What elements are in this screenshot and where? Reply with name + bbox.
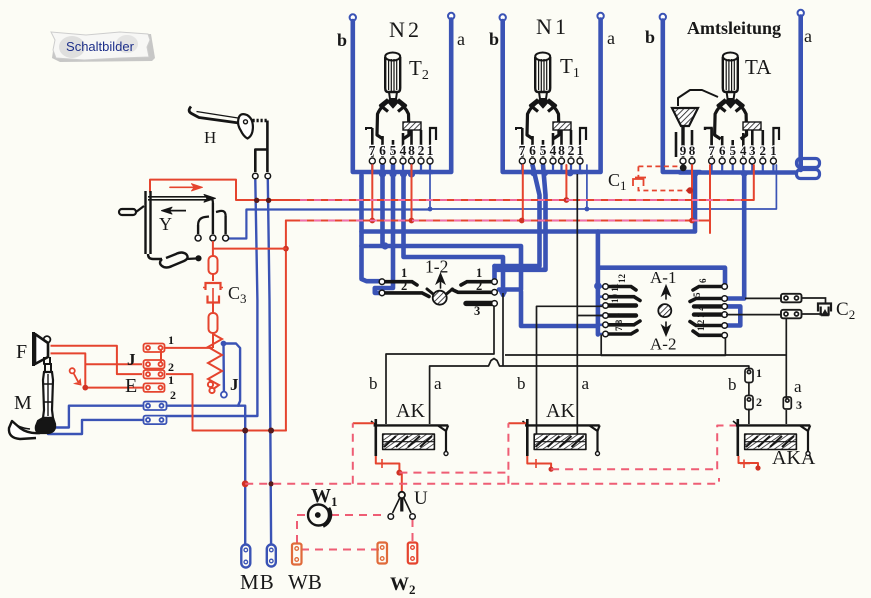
wire T2 contact 7 red drop	[371, 165, 373, 221]
svg-text:a: a	[582, 374, 590, 393]
wire AK1 b to 1-2 bar 3	[386, 307, 494, 425]
wire edge2 left stub	[362, 244, 384, 249]
capacitor C3	[203, 283, 223, 303]
svg-text:7 8 9: 7 8 9	[614, 313, 624, 332]
node joint above J relay	[221, 341, 227, 347]
wire AK2 feed solid	[508, 422, 526, 424]
right bar 1	[461, 282, 492, 285]
hook arm from TA plug to auxiliary jack	[678, 90, 718, 106]
svg-text:6: 6	[698, 278, 708, 283]
wire contact stubs to buses	[372, 164, 773, 173]
wire U switch feed	[401, 473, 403, 492]
svg-text:Amtsleitung: Amtsleitung	[687, 18, 781, 38]
wire a of Amtsleitung	[798, 10, 804, 170]
right bars group	[693, 287, 722, 291]
wire T2 contact 6 down to switch 1-2 rail	[383, 165, 522, 290]
wire A-2 lower frame	[601, 335, 725, 356]
rotor hatched circle	[433, 291, 447, 305]
connector bar lower at line end	[797, 170, 820, 179]
wire T1 contact 5 down to 1-2 right bar 1	[495, 165, 546, 280]
svg-text:Schaltbilder: Schaltbilder	[66, 39, 135, 54]
contact numbers of T2	[369, 143, 434, 158]
contact bar E1	[144, 370, 165, 379]
wire jumper on A right contacts 4 to 2	[726, 306, 740, 325]
contact bar E2	[144, 383, 165, 392]
relay AKA	[733, 419, 810, 456]
wire H-switch right blade down to MB battery right	[268, 180, 271, 544]
svg-text:H: H	[204, 128, 216, 147]
wire F top to contact row 3	[51, 346, 143, 374]
svg-text:F: F	[16, 341, 27, 363]
contact bar blue row6	[144, 416, 167, 425]
svg-text:6: 6	[379, 143, 386, 158]
svg-text:1: 1	[577, 143, 584, 158]
wire a of N1 cord	[570, 13, 604, 172]
tiny rotated numbers right bank	[692, 278, 708, 331]
wire T2 contact 8 red drop	[411, 165, 413, 221]
switch U	[388, 492, 415, 520]
labels b a at AK relays	[369, 374, 802, 396]
svg-text:5: 5	[692, 292, 702, 297]
wire row1-row2 link	[160, 350, 162, 362]
dash WB to W1	[297, 515, 306, 543]
wire handset bottom red return	[193, 374, 286, 430]
relay coil J zigzag	[208, 334, 222, 393]
dash W1 to U	[331, 514, 386, 516]
red wires of handset	[51, 346, 214, 391]
svg-text:7: 7	[708, 143, 715, 158]
wire from A contacts to upper bar	[745, 297, 781, 299]
wire AK2 a drop	[576, 174, 578, 434]
battery W2 cell right	[408, 543, 418, 564]
wire bus under T2 jack	[372, 170, 432, 175]
wire TA contact 4 drop to A-1 right contacts	[727, 174, 744, 299]
node bus joints TA	[692, 170, 748, 177]
wire T1 c2 branch to A bank left row4	[577, 315, 602, 317]
svg-text:2: 2	[476, 279, 482, 293]
svg-text:10 11: 10 11	[610, 283, 620, 303]
svg-text:5: 5	[540, 143, 547, 158]
svg-text:1-2: 1-2	[425, 257, 448, 277]
dash AK2 riser	[507, 423, 509, 484]
svg-text:1: 1	[770, 143, 777, 158]
svg-text:2: 2	[401, 279, 407, 293]
svg-text:b: b	[645, 27, 655, 47]
svg-text:a: a	[794, 377, 802, 396]
wire AK1 a along to AKA b	[430, 359, 749, 425]
contact circle of J relay	[221, 392, 227, 398]
wire branch to row 2	[85, 363, 142, 365]
wire feeder from 1-2 area down	[502, 293, 504, 366]
generator crank Y	[119, 191, 229, 268]
svg-text:b: b	[369, 374, 378, 393]
svg-text:3: 3	[796, 398, 802, 412]
wire stubs frame to contacts	[598, 287, 603, 335]
svg-text:1: 1	[476, 266, 482, 280]
plug TA body	[715, 53, 747, 140]
svg-text:M: M	[14, 392, 32, 414]
wire from A contacts to lower bar	[726, 314, 781, 316]
right bar 3 double	[466, 301, 492, 306]
wire AKA b bars to coil	[748, 383, 750, 424]
wire red loop over Y inductor	[150, 180, 750, 200]
wire bar 5 branch up to J relay contact	[225, 344, 240, 406]
rotor hatched circle	[658, 304, 671, 317]
svg-text:WB: WB	[288, 570, 322, 594]
dash upper right segment	[551, 468, 717, 470]
contact bank of TA jack	[680, 122, 779, 164]
left bars group	[608, 287, 636, 291]
wire AKA a bar3 to coil	[785, 410, 787, 424]
svg-text:a: a	[434, 374, 442, 393]
svg-text:2: 2	[568, 143, 575, 158]
svg-text:3: 3	[749, 143, 756, 158]
wire a of N2 cord	[420, 13, 454, 172]
left bar 1	[385, 282, 417, 285]
wire AK1 feed solid	[353, 422, 374, 424]
wire C2 down to AKA a	[785, 318, 787, 399]
contact bar 3 of AKA	[783, 397, 791, 409]
dash WB to W2 left cell	[301, 549, 380, 551]
dash D1 horizontal	[399, 472, 508, 474]
wire upper bar to C2	[802, 298, 826, 304]
svg-text:1: 1	[756, 366, 762, 380]
handset receiver F	[34, 332, 51, 366]
handset microphone M	[9, 418, 55, 439]
node at switch	[82, 385, 88, 391]
capacitor C2 plates	[818, 304, 831, 312]
wire M microphone to contact bar row 5	[52, 406, 142, 428]
battery MB cell 1	[241, 545, 250, 568]
svg-text:2: 2	[170, 388, 176, 402]
wire T1 contact 6 drop	[495, 165, 540, 266]
svg-text:b: b	[517, 374, 526, 393]
wire TA contact 8 red drop with C1 tap	[691, 165, 693, 221]
contact bar 1 of AKA	[745, 369, 753, 383]
svg-text:A-2: A-2	[650, 335, 676, 354]
wire T2 contact 1 to TA contact 1 thin line	[430, 165, 776, 209]
svg-text:7: 7	[519, 143, 526, 158]
wire b of N2 cord	[350, 14, 383, 172]
svg-text:5: 5	[729, 143, 736, 158]
battery MB cell 2	[267, 545, 276, 567]
auxiliary jack cup of TA	[672, 108, 698, 157]
node red junctions on L1 and L3	[369, 197, 694, 223]
capacitor C1 dashed connection	[638, 166, 687, 190]
black wiring to relays	[386, 174, 786, 434]
tiny rotated numbers left bank	[610, 274, 627, 332]
wire M microphone lower to contact bar row 6	[48, 420, 143, 434]
hook switch lever H	[189, 107, 270, 179]
svg-text:1 2 3 4: 1 2 3 4	[696, 306, 706, 331]
svg-text:AK: AK	[546, 400, 575, 422]
svg-text:b: b	[489, 29, 499, 49]
svg-text:a: a	[607, 28, 615, 48]
arrow down A-2	[662, 322, 669, 335]
wire AK2 b drop	[537, 306, 603, 434]
resistor above C3	[209, 241, 218, 281]
arrow of 1-2	[437, 274, 444, 288]
wire through J relay to its contact	[222, 344, 225, 392]
battery WB cell	[292, 544, 302, 565]
arrow red of Y	[170, 186, 194, 188]
svg-text:3: 3	[474, 304, 480, 318]
contact bar J1	[144, 344, 165, 353]
connector bar upper at line end	[797, 159, 820, 168]
wire b of N1 cord	[500, 14, 534, 172]
svg-text:TA: TA	[745, 55, 772, 79]
svg-text:U: U	[414, 488, 428, 509]
svg-text:2: 2	[168, 360, 174, 374]
wire AK2 return	[527, 456, 551, 467]
SECTION: rednet	[150, 165, 754, 434]
svg-text:5: 5	[390, 143, 397, 158]
node bus joints T2	[379, 170, 602, 295]
svg-text:2: 2	[418, 143, 425, 158]
svg-text:a: a	[804, 26, 812, 46]
wire drop from bus to 1-2 left bar 1	[362, 175, 381, 281]
node bus joints T1	[530, 170, 573, 177]
wire bus under T1 jack	[522, 170, 582, 175]
svg-text:J: J	[230, 375, 239, 394]
dash AKA feed riser	[717, 426, 736, 470]
contact bar lower of C2	[781, 310, 802, 319]
wire b-rail from T2 bus to A-1 frame	[362, 174, 696, 232]
handset handle	[43, 364, 53, 418]
node red junction at C3 branch	[283, 246, 289, 252]
alarm bell W1	[308, 505, 330, 527]
svg-text:1: 1	[427, 143, 434, 158]
dash AK1 riser	[352, 423, 354, 484]
svg-text:2: 2	[760, 143, 767, 158]
svg-text:4: 4	[550, 143, 557, 158]
rotor blades	[427, 289, 433, 294]
svg-text:6: 6	[719, 143, 726, 158]
wire switch node to row 4	[85, 387, 143, 389]
battery W2 cell left	[378, 543, 388, 564]
selector switch A-1 A-2	[603, 284, 728, 338]
node T1 c1 on thin line	[585, 207, 590, 212]
wire edge2 descender to frame row5	[521, 292, 597, 327]
plug T2 body	[377, 53, 409, 140]
svg-text:b: b	[728, 375, 737, 394]
wire T2 contact 8 down to rail 3	[404, 174, 504, 295]
svg-text:J: J	[127, 350, 136, 369]
small numbers at 1-2 bars	[401, 266, 482, 318]
numbers at AKA bars	[756, 366, 802, 412]
wire red L3 from node column to TA contact 7	[286, 165, 710, 233]
wire T1 contact 7 red drop	[522, 165, 524, 221]
wire AK1 return	[376, 456, 400, 470]
overlay pink dashes on long line L1	[300, 199, 748, 201]
contact bank of T1 jack	[516, 122, 586, 164]
dash U to W2	[412, 519, 414, 542]
dashed battery network	[245, 423, 736, 549]
arrow up A-1	[662, 286, 669, 299]
svg-text:MB: MB	[240, 570, 274, 594]
wire long line to AKA a	[505, 354, 786, 356]
svg-text:4: 4	[740, 143, 747, 158]
svg-text:8: 8	[558, 143, 565, 158]
wire from Y contact joining thin line L2	[228, 210, 428, 239]
svg-text:E: E	[125, 375, 137, 397]
svg-text:A-1: A-1	[650, 268, 676, 287]
svg-text:b: b	[337, 30, 347, 50]
left bar 2	[385, 293, 429, 297]
dash D2 horizontal	[245, 478, 719, 484]
capacitor C1 symbol	[633, 178, 646, 187]
wire T1 contact 8 red drop	[565, 165, 567, 200]
wire lower bar to C2	[802, 313, 823, 315]
contact bar 2 of AKA	[745, 396, 753, 410]
SECTION: bluewires	[48, 10, 820, 544]
wire H-switch left blade down to MB battery left	[166, 180, 257, 416]
svg-text:1: 1	[401, 266, 407, 280]
wire row1 to J coil	[165, 347, 213, 349]
svg-text:2: 2	[756, 395, 762, 409]
svg-text:7: 7	[369, 143, 376, 158]
svg-text:8: 8	[689, 143, 696, 158]
wire T2 contact 5 down to 1-2 left bar 2	[375, 165, 393, 293]
svg-text:6: 6	[529, 143, 536, 158]
small numbers at contact bars	[168, 333, 176, 402]
wire b of Amtsleitung	[660, 14, 700, 172]
wire row3 to return column	[166, 373, 193, 375]
contact bar blue row5	[144, 402, 167, 411]
wire AKA return	[739, 456, 759, 467]
relay AK2	[523, 419, 600, 456]
contact bar upper of C2	[781, 294, 802, 303]
plug T1 body	[527, 53, 559, 140]
wire red L1 rise to TA contact 3	[750, 165, 754, 200]
contact bank of T2 jack	[366, 122, 436, 164]
wire red column from L3 down to handset line	[285, 221, 287, 431]
Schaltbilder badge	[51, 32, 155, 62]
svg-text:N2: N2	[389, 17, 419, 42]
svg-text:N1: N1	[536, 14, 566, 39]
svg-text:1: 1	[168, 373, 174, 387]
node dark joints on MB wires	[242, 198, 274, 434]
contact bar J2	[144, 360, 165, 369]
svg-text:AK: AK	[396, 400, 425, 422]
wire T1 contact 1 stub to thin line	[586, 165, 588, 209]
svg-text:a: a	[457, 29, 465, 49]
selector switch 1-2	[379, 274, 497, 306]
wire F bottom branch	[51, 353, 86, 387]
nodes on dash line D1	[396, 465, 760, 475]
svg-text:8: 8	[408, 143, 415, 158]
svg-text:1: 1	[168, 333, 174, 347]
wire bus under TA jack	[680, 170, 795, 175]
resistor below C3	[209, 303, 218, 349]
sidetone switch contact	[70, 368, 81, 384]
capacitor C2 with contact bars	[726, 294, 831, 319]
wire A-1 frame top and left side	[598, 232, 725, 335]
wire branch to C3 chain	[213, 248, 286, 250]
node C1 to TA joint	[687, 187, 693, 193]
contact numbers of T1	[519, 143, 584, 158]
svg-text:12: 12	[617, 274, 627, 284]
node on dash line D2	[242, 480, 249, 487]
svg-text:4: 4	[400, 143, 407, 158]
svg-text:9: 9	[680, 143, 687, 158]
relay AK1	[371, 419, 448, 456]
wire bar 5 to MB battery left and up to relay J contact	[167, 406, 245, 544]
red feed wires of relays	[242, 423, 761, 492]
contact numbers of TA	[680, 143, 777, 158]
right bar 2	[452, 290, 492, 293]
svg-text:Y: Y	[159, 214, 172, 234]
